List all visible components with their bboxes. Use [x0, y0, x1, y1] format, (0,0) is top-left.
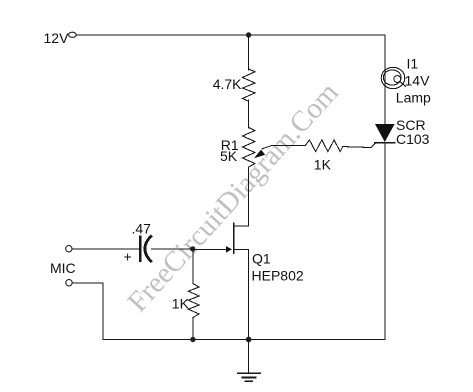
wire top rail — [76, 34, 385, 36]
svg-text:C103: C103 — [396, 131, 430, 147]
wire MIC top to cap — [72, 248, 139, 250]
wire SCR cathode down — [384, 143, 386, 340]
svg-text:MIC: MIC — [50, 260, 76, 276]
resistor 1K horizontal — [305, 140, 342, 152]
svg-text:1K: 1K — [172, 296, 190, 312]
SCR C103 — [343, 124, 395, 148]
node junction 1K bottom — [190, 337, 195, 342]
ground — [238, 340, 260, 382]
transistor Q1 — [226, 223, 249, 253]
svg-text:I1: I1 — [407, 56, 419, 72]
wire base — [193, 248, 227, 250]
resistor 4.7K — [242, 69, 255, 101]
svg-text:HEP802: HEP802 — [252, 268, 304, 284]
wire pot to collector — [248, 167, 250, 226]
svg-text:1K: 1K — [314, 157, 332, 173]
wire junction to 1K — [192, 249, 194, 283]
node junction emitter/ground — [246, 337, 252, 343]
wire cap to junction — [152, 248, 193, 250]
junction dot top rail — [246, 32, 251, 37]
lamp I1 — [381, 67, 405, 88]
wire junction to 4.7K — [248, 35, 250, 70]
wire 1K to rail — [192, 318, 194, 340]
node 12V terminal — [69, 32, 77, 37]
node MIC bottom terminal — [66, 280, 72, 286]
resistor 1K vertical — [188, 283, 199, 317]
pot wiper — [254, 145, 305, 158]
svg-text:Q1: Q1 — [252, 251, 271, 267]
node MIC top terminal — [66, 246, 72, 252]
wire right drop to lamp — [384, 35, 386, 124]
svg-text:12V: 12V — [44, 30, 70, 46]
wire emitter down — [248, 249, 250, 339]
svg-text:5K: 5K — [220, 148, 238, 164]
wire 4.7K to pot — [248, 100, 250, 128]
wire MIC bottom to rail — [72, 283, 103, 340]
svg-text:Lamp: Lamp — [396, 90, 431, 106]
svg-text:14V: 14V — [405, 73, 431, 89]
node junction base/cap — [190, 246, 195, 251]
svg-text:+: + — [124, 249, 132, 265]
wire bottom rail — [103, 339, 385, 341]
potentiometer R1 5K — [242, 128, 255, 168]
capacitor .47 — [140, 236, 151, 261]
svg-text:.47: .47 — [132, 221, 152, 237]
svg-text:4.7K: 4.7K — [213, 76, 242, 92]
